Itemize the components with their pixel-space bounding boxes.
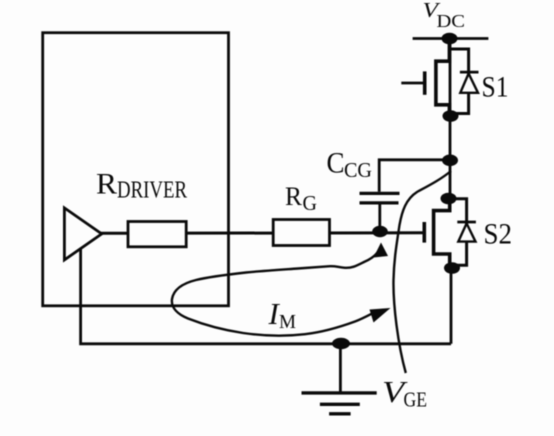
svg-text:S1: S1: [482, 71, 509, 104]
svg-text:M: M: [279, 312, 296, 333]
svg-text:CG: CG: [344, 158, 372, 182]
svg-text:R: R: [285, 181, 302, 211]
svg-text:G: G: [303, 191, 318, 215]
svg-text:DC: DC: [437, 11, 466, 31]
svg-text:R: R: [96, 167, 117, 200]
svg-text:DRIVER: DRIVER: [117, 177, 187, 203]
svg-text:C: C: [327, 146, 345, 179]
svg-text:S2: S2: [484, 217, 513, 250]
svg-text:GE: GE: [404, 388, 428, 412]
